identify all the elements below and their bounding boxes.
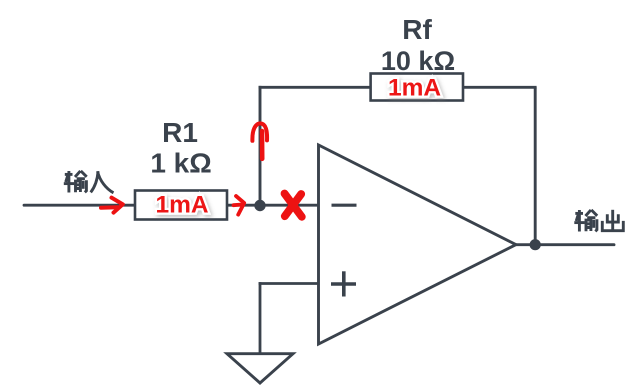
annotation red arrow into node — [234, 196, 245, 215]
wire feedback top horizontal — [259, 86, 537, 89]
resistor Rf body — [371, 74, 463, 101]
wire non-inverting input — [259, 282, 319, 285]
resistor R1 body — [135, 191, 227, 220]
wire to ground — [259, 282, 262, 354]
char shu (input) — [64, 171, 87, 193]
wire feedback right vertical to output node — [534, 87, 537, 244]
svg-text:1mA: 1mA — [388, 75, 441, 102]
annotation red arrow input current — [101, 198, 123, 213]
op-amp U1 triangle — [319, 145, 517, 344]
char ru (enter) — [91, 171, 114, 193]
label output Chinese shu-chu — [574, 210, 623, 232]
svg-text:10 kΩ: 10 kΩ — [381, 46, 455, 76]
op-amp minus sign — [332, 204, 357, 207]
label input Chinese shu-ru — [64, 171, 114, 193]
char chu (out) — [602, 210, 623, 231]
wire input Vin to inverting node — [24, 204, 319, 207]
svg-text:1mA: 1mA — [155, 192, 208, 219]
node B output junction dot — [530, 239, 541, 250]
annotation red arrow feedback current up — [252, 123, 267, 158]
ground — [227, 354, 293, 383]
svg-text:R1: R1 — [162, 117, 198, 148]
wire feedback left vertical (node to top) — [259, 86, 262, 207]
node A inverting-input junction dot — [254, 200, 265, 211]
annotation red X no current into op-amp — [285, 194, 302, 217]
op-amp plus sign — [331, 271, 356, 296]
char shu (output-1) — [574, 210, 597, 232]
wire output — [516, 243, 614, 246]
svg-text:Rf: Rf — [402, 14, 432, 45]
svg-text:1 kΩ: 1 kΩ — [150, 148, 211, 179]
